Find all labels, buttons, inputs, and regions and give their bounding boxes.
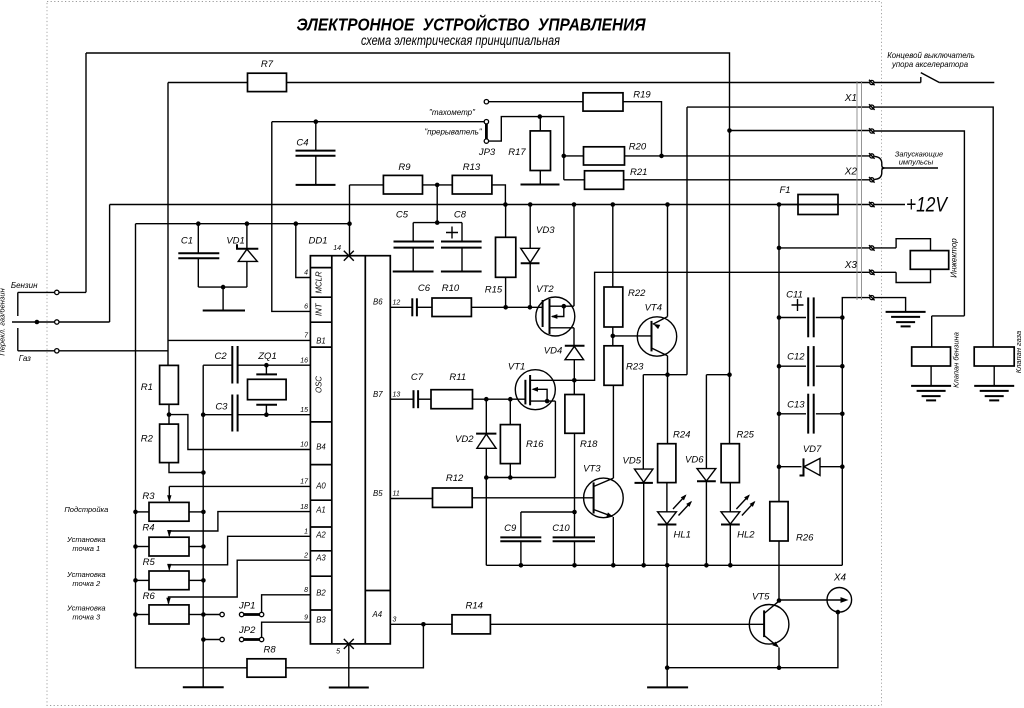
svg-text:C4: C4 xyxy=(296,138,308,149)
wire VT4 to R24 xyxy=(667,375,669,444)
ground bar C1 xyxy=(222,287,224,310)
svg-text:VT3: VT3 xyxy=(583,464,601,475)
svg-text:+12V: +12V xyxy=(906,194,949,217)
node Gaz contact xyxy=(18,350,55,352)
svg-text:VD2: VD2 xyxy=(455,434,474,445)
svg-text:R9: R9 xyxy=(398,162,411,173)
transistor VT2 xyxy=(536,297,575,336)
transistor VT5 xyxy=(749,605,789,645)
svg-text:точка 2: точка 2 xyxy=(72,579,101,588)
wire ground bus xyxy=(486,564,842,566)
valve benzin xyxy=(932,315,965,317)
resistor R11 xyxy=(431,390,473,409)
wire R10 to VT2 gate xyxy=(471,306,542,308)
svg-text:HL2: HL2 xyxy=(737,530,755,541)
svg-text:3: 3 xyxy=(393,617,397,624)
svg-text:B7: B7 xyxy=(373,390,383,399)
svg-text:B2: B2 xyxy=(316,589,326,598)
jumper JP3 xyxy=(485,124,488,139)
wire +12V branch down x779 xyxy=(778,205,780,502)
wire A0 pin17 xyxy=(169,485,310,487)
ground chassis X3 lines xyxy=(886,311,926,313)
svg-text:R1: R1 xyxy=(141,382,153,393)
ic DD1 body xyxy=(310,256,390,644)
resistor R2 xyxy=(160,424,179,463)
svg-text:2: 2 xyxy=(303,552,308,559)
svg-text:6: 6 xyxy=(304,304,308,311)
wire VT1 source down xyxy=(554,401,556,477)
svg-text:R17: R17 xyxy=(508,147,526,158)
wire B7 pin13 to C7 xyxy=(390,398,413,400)
svg-text:C3: C3 xyxy=(215,402,228,413)
wire pin16 net xyxy=(203,364,232,366)
transistor VT3 xyxy=(584,478,624,518)
svg-text:Газ: Газ xyxy=(19,354,31,363)
diode VD2 xyxy=(485,399,487,433)
wire injector supply X3 pin6 xyxy=(779,247,870,249)
wire R1 bottom node xyxy=(168,404,170,424)
svg-text:R12: R12 xyxy=(446,473,464,484)
node Benzin contact xyxy=(18,291,55,293)
wire R22 R23 node to VT4 base xyxy=(612,327,614,346)
switch pole wire xyxy=(12,321,55,323)
diode VD4 xyxy=(565,345,585,347)
svg-text:R23: R23 xyxy=(626,361,644,372)
svg-text:R18: R18 xyxy=(580,439,598,450)
wire VT3 emitter to bus xyxy=(612,517,614,565)
svg-text:JP3: JP3 xyxy=(478,147,496,158)
wire C3 to DD1 pin15 xyxy=(238,414,311,416)
svg-text:R8: R8 xyxy=(264,645,277,656)
svg-text:R13: R13 xyxy=(463,162,481,173)
svg-text:"тахометр": "тахометр" xyxy=(429,108,476,117)
resistor R23 xyxy=(604,346,623,386)
svg-text:C9: C9 xyxy=(504,523,517,534)
ground bar C4 xyxy=(296,184,336,186)
wire R16 VD2 bottom to VT1 source xyxy=(486,477,555,479)
svg-text:B5: B5 xyxy=(373,489,383,498)
svg-text:VT2: VT2 xyxy=(536,284,554,295)
wire R7 right to X1 pin1 xyxy=(287,82,870,84)
svg-text:9: 9 xyxy=(304,614,308,621)
wire R9-R13 junction xyxy=(423,184,453,186)
fuse F1 xyxy=(779,204,798,206)
svg-text:VD3: VD3 xyxy=(536,225,555,236)
wire R7 left to vertical x168 xyxy=(168,82,248,84)
svg-text:R10: R10 xyxy=(442,283,460,294)
svg-text:C8: C8 xyxy=(454,210,467,221)
diode VD5 xyxy=(642,375,644,469)
wiper R5 to A2 xyxy=(169,536,310,569)
potentiometer R4 xyxy=(136,546,150,548)
svg-text:A1: A1 xyxy=(315,506,326,515)
svg-text:JP2: JP2 xyxy=(238,625,256,636)
wire VT2 drain to +12V xyxy=(573,205,575,307)
led HL1 xyxy=(666,483,668,512)
svg-text:X3: X3 xyxy=(844,260,858,271)
svg-text:DD1: DD1 xyxy=(308,236,327,247)
pin 5 cross xyxy=(344,639,354,649)
svg-text:16: 16 xyxy=(300,357,308,364)
wire R23 to VT3 collector xyxy=(612,385,614,478)
connector X1 pin2 xyxy=(870,105,874,109)
svg-text:ZQ1: ZQ1 xyxy=(257,351,276,362)
connector X3 pin6 xyxy=(870,246,874,250)
svg-text:X1: X1 xyxy=(844,93,857,104)
capacitor C8 polarized xyxy=(461,223,463,242)
connector symbol lines xyxy=(856,81,858,300)
transistor VT4 xyxy=(637,317,676,356)
resistor R15 xyxy=(505,205,507,238)
resistor R25 xyxy=(729,375,731,444)
connector X3 pin5 +12V xyxy=(870,202,874,206)
wire B5 pin11 to R12 xyxy=(390,498,432,500)
wire X4 return xyxy=(836,610,841,615)
svg-text:X4: X4 xyxy=(833,573,847,584)
svg-text:Концевой выключатель: Концевой выключатель xyxy=(887,51,975,60)
capacitor C5 xyxy=(412,223,414,242)
svg-text:C10: C10 xyxy=(552,523,570,534)
resistor R12 xyxy=(433,488,473,507)
svg-text:B1: B1 xyxy=(316,337,326,346)
wire VT4 collector node xyxy=(667,356,669,375)
svg-text:12: 12 xyxy=(393,300,401,307)
svg-text:MCLR: MCLR xyxy=(314,271,323,293)
svg-text:VD5: VD5 xyxy=(623,455,642,466)
svg-text:F1: F1 xyxy=(779,185,790,196)
resistor R22 xyxy=(612,205,614,288)
diode VD7 zener xyxy=(779,466,802,468)
wire R1R2 node to B4 pin10 xyxy=(169,415,310,450)
svg-text:VT4: VT4 xyxy=(645,302,662,313)
wire B6 pin12 to C6 xyxy=(390,306,411,308)
svg-text:R4: R4 xyxy=(142,523,154,534)
connector X2 pin4 xyxy=(870,154,874,158)
svg-text:Подстройка: Подстройка xyxy=(64,505,108,514)
ground bar R17 xyxy=(539,171,541,185)
svg-text:Бензин: Бензин xyxy=(11,281,38,290)
wire C6 to R10 xyxy=(418,306,433,308)
svg-text:R7: R7 xyxy=(261,59,274,70)
wire R9 left xyxy=(350,184,384,186)
resistor R8 xyxy=(247,659,286,677)
resistor R21 xyxy=(564,179,585,181)
wire tachometer circle to R19 xyxy=(484,100,488,104)
svg-text:VD6: VD6 xyxy=(685,454,704,465)
capacitor C1 xyxy=(197,224,199,254)
resistor R1 xyxy=(160,365,179,404)
potentiometer R6 xyxy=(136,614,150,616)
wire valve benzin to ground xyxy=(930,366,932,386)
wire JP2 to B3 pin9 xyxy=(262,622,311,637)
wire valve gaz to ground xyxy=(993,366,995,386)
potentiometer R5 xyxy=(136,579,150,581)
wire JP1 to B2 pin8 xyxy=(262,595,311,613)
transistor VT1 xyxy=(515,370,555,410)
svg-text:17: 17 xyxy=(300,479,309,486)
wire VT5 collector node to R26 xyxy=(778,541,780,601)
wire R12 to VT3 base xyxy=(472,497,593,499)
wire vertical x168 R7/B1/Gaz/R1 xyxy=(167,83,169,366)
wire ground rail vertical xyxy=(202,365,204,687)
pin 14 cross xyxy=(344,251,354,261)
ic DD1 right cell divider A4 xyxy=(365,590,390,592)
ground bar C5 xyxy=(393,271,434,273)
resistor R7 xyxy=(248,73,287,91)
capacitor C9 xyxy=(520,512,522,537)
svg-text:R24: R24 xyxy=(673,430,690,441)
svg-text:R2: R2 xyxy=(141,434,154,445)
wire C1 VD1 bottom xyxy=(198,286,247,288)
svg-text:B4: B4 xyxy=(316,443,326,452)
capacitor C12 xyxy=(779,365,806,367)
capacitor C10 xyxy=(574,512,576,537)
svg-text:C1: C1 xyxy=(181,236,193,247)
svg-text:A4: A4 xyxy=(372,610,383,619)
wire C9 C10 top net xyxy=(521,511,575,513)
svg-text:13: 13 xyxy=(393,391,401,398)
svg-text:R3: R3 xyxy=(142,491,155,502)
connector X3 pin8 xyxy=(870,296,874,300)
svg-text:ЭЛЕКТРОННОЕ УСТРОЙСТВО УПРАВ: ЭЛЕКТРОННОЕ УСТРОЙСТВО УПРАВЛЕНИЯ xyxy=(297,14,647,35)
wire MCLR pin4 xyxy=(294,221,299,226)
wire R13 right to +12V xyxy=(492,185,506,205)
brace trigger pulses xyxy=(875,156,886,179)
svg-text:C2: C2 xyxy=(215,351,228,362)
wire +12V rail xyxy=(110,204,870,206)
wire right column x842 xyxy=(842,298,869,566)
switch bracket xyxy=(17,292,19,316)
svg-text:упора акселератора: упора акселератора xyxy=(891,60,969,69)
wire INT vertical xyxy=(272,122,311,312)
svg-text:R15: R15 xyxy=(485,284,503,295)
svg-text:C6: C6 xyxy=(418,283,431,294)
svg-text:Клапан бензина: Клапан бензина xyxy=(952,332,961,388)
svg-text:Установка: Установка xyxy=(66,604,106,613)
svg-text:INT: INT xyxy=(314,302,323,316)
svg-text:VT1: VT1 xyxy=(508,361,525,372)
wire X1 pin3 net vertical xyxy=(729,131,731,375)
jumper JP1 xyxy=(203,614,220,616)
svg-text:R16: R16 xyxy=(526,439,544,450)
led HL2 xyxy=(729,483,731,512)
wire X1 pin3 out xyxy=(874,131,964,316)
svg-text:C13: C13 xyxy=(787,400,805,411)
wire X1 pin2 out xyxy=(874,107,993,347)
svg-text:R19: R19 xyxy=(633,90,651,101)
svg-text:15: 15 xyxy=(300,407,308,414)
wire R20 right to X2 pin4 xyxy=(625,155,870,157)
svg-text:A3: A3 xyxy=(315,554,326,563)
wire VDD rail xyxy=(136,223,350,225)
svg-text:Инжектор: Инжектор xyxy=(950,238,959,278)
wire pin5 to ground xyxy=(348,644,350,688)
svg-text:8: 8 xyxy=(304,587,308,594)
capacitor C6 xyxy=(411,298,413,316)
valve gaz xyxy=(974,347,1014,366)
resistor R26 xyxy=(770,502,788,541)
svg-text:точка 1: точка 1 xyxy=(72,544,100,553)
svg-text:R26: R26 xyxy=(796,533,814,544)
svg-text:Установка: Установка xyxy=(66,570,106,579)
svg-text:14: 14 xyxy=(333,245,341,252)
svg-text:R22: R22 xyxy=(628,288,646,299)
injector symbol xyxy=(874,247,896,249)
capacitor C4 xyxy=(315,122,317,151)
wire VT2 source to VD4 xyxy=(573,328,575,346)
svg-text:B6: B6 xyxy=(373,298,383,307)
wire bus to ground and VT5 emitter rail xyxy=(666,565,668,687)
wiper R6 to A3 xyxy=(169,560,311,603)
capacitor C2 xyxy=(231,346,233,384)
wire R2 bottom to ground rail xyxy=(169,463,203,473)
ground bar center xyxy=(647,686,688,688)
svg-text:R20: R20 xyxy=(629,142,647,153)
resistor R19 xyxy=(583,93,623,111)
svg-text:VD4: VD4 xyxy=(544,345,562,356)
svg-text:11: 11 xyxy=(393,491,400,498)
wire A4 pin3 to R14 xyxy=(390,623,452,625)
svg-text:R6: R6 xyxy=(143,591,156,602)
wire JP3 to R17/R20/R21 xyxy=(489,117,564,180)
svg-text:точка 3: точка 3 xyxy=(72,613,101,622)
wire injector return net xyxy=(574,272,869,380)
svg-text:5: 5 xyxy=(336,649,340,656)
ground bar rail xyxy=(183,686,224,688)
svg-text:4: 4 xyxy=(304,270,308,277)
resistor R10 xyxy=(432,298,471,317)
svg-text:JP1: JP1 xyxy=(238,601,255,612)
wire Benzin net top xyxy=(86,53,730,131)
svg-text:A0: A0 xyxy=(315,482,326,491)
svg-text:"прерыватель": "прерыватель" xyxy=(424,127,482,136)
svg-text:18: 18 xyxy=(300,504,308,511)
wire R21 right to X2 pin5 xyxy=(624,179,870,181)
resistor R9 xyxy=(383,175,422,194)
svg-text:импульсы: импульсы xyxy=(899,158,934,167)
switch limit accelerator xyxy=(874,82,921,84)
diode VD1 zener xyxy=(245,221,250,226)
svg-text:VD1: VD1 xyxy=(226,236,244,247)
wiper R3 to A0 xyxy=(168,486,170,501)
wire R19 right down to R20 net xyxy=(623,102,662,156)
wiper R4 to A1 xyxy=(169,512,310,536)
resistor R17 xyxy=(539,117,541,131)
svg-text:B3: B3 xyxy=(316,616,326,625)
ground valve benzin lines xyxy=(911,385,951,387)
wire C2 to DD1 pin16 xyxy=(238,364,311,366)
wire X1 pin2 net vertical xyxy=(686,107,688,375)
connector X1 pin1 xyxy=(870,80,874,84)
ic DD1 left cell dividers xyxy=(310,267,331,269)
connector X4 xyxy=(827,588,852,613)
wire R14 to VT5 base xyxy=(490,623,764,625)
capacitor C11 polarized xyxy=(779,317,806,319)
wire R8 right rail to A4 node xyxy=(286,624,424,668)
wire VT5 emitter to bottom rail xyxy=(778,648,780,668)
capacitor C13 xyxy=(779,413,806,415)
svg-text:R21: R21 xyxy=(630,167,647,178)
resistor R24 xyxy=(658,444,676,483)
wire C7 to R11 xyxy=(419,398,431,400)
svg-text:C7: C7 xyxy=(411,372,424,383)
svg-text:R25: R25 xyxy=(737,430,755,441)
svg-text:X2: X2 xyxy=(844,167,858,178)
svg-text:A2: A2 xyxy=(315,531,326,540)
svg-text:C12: C12 xyxy=(787,352,805,363)
svg-text:1: 1 xyxy=(304,529,308,536)
ground bar pin5 xyxy=(329,687,369,689)
ground valve gaz lines xyxy=(974,385,1014,387)
svg-text:HL1: HL1 xyxy=(673,530,690,541)
wire VDD down left side xyxy=(136,224,248,668)
svg-text:C11: C11 xyxy=(786,290,803,301)
wire junction down to C5C8 net xyxy=(436,185,438,223)
capacitor C3 xyxy=(231,395,233,432)
wire X1 pin3 horizontal xyxy=(730,130,870,132)
wire pin15 net xyxy=(203,414,232,416)
svg-text:Перекл. газ/бензин: Перекл. газ/бензин xyxy=(0,288,7,355)
wire Benzin vertical xyxy=(85,53,87,292)
svg-text:Установка: Установка xyxy=(66,535,106,544)
resistor R13 xyxy=(452,175,492,194)
svg-text:OSC: OSC xyxy=(314,376,323,393)
wire pole to +12V rail xyxy=(109,205,111,323)
diode VD6 xyxy=(705,375,707,469)
diode VD3 xyxy=(528,202,533,207)
node +12V xyxy=(874,204,905,206)
potentiometer R3 xyxy=(136,511,150,513)
svg-text:Клапан газа: Клапан газа xyxy=(1014,331,1023,373)
svg-text:R11: R11 xyxy=(449,372,466,383)
wire VD2 down to bus xyxy=(485,478,487,566)
svg-text:R14: R14 xyxy=(465,601,482,612)
crystal ZQ1 xyxy=(265,365,267,374)
resistor R14 xyxy=(452,615,490,634)
wire X3 pin8 to chassis ground xyxy=(874,298,906,312)
wire X1 pin2 horizontal xyxy=(687,106,870,108)
svg-text:схема электрическая принципиал: схема электрическая принципиальная xyxy=(361,33,560,48)
wire pin14 vdd vertical xyxy=(349,185,351,256)
resistor R18 xyxy=(573,380,575,394)
wire R11 to VT1 gate xyxy=(473,398,526,400)
wire B1 pin7 xyxy=(168,339,310,341)
svg-text:VT5: VT5 xyxy=(752,591,770,602)
svg-text:VD7: VD7 xyxy=(803,444,822,455)
connector X3 pin7 xyxy=(870,270,874,274)
connector X1 pin3 xyxy=(870,129,874,133)
connector X2 pin5 xyxy=(870,178,874,182)
resistor R20 xyxy=(564,155,584,157)
wire JP3 mid to C4 node xyxy=(272,121,485,123)
resistor R16 xyxy=(509,399,511,424)
svg-text:10: 10 xyxy=(300,442,308,449)
ground bar C8 xyxy=(441,271,482,273)
wire C5C8 top net xyxy=(413,222,462,224)
svg-text:C5: C5 xyxy=(396,210,409,221)
capacitor C7 xyxy=(413,390,415,408)
svg-text:R5: R5 xyxy=(143,557,156,568)
jumper JP2 xyxy=(203,639,220,641)
